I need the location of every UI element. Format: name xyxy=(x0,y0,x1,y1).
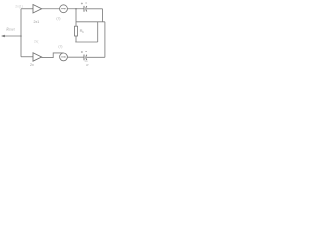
wire circle2 to capacitor C2 xyxy=(67,56,83,58)
wire U1 output to circle xyxy=(42,8,60,10)
svg-text:(r): (r) xyxy=(58,44,62,48)
capacitor C1 curved plate xyxy=(86,6,87,11)
source circle2 xyxy=(60,53,68,61)
wire input vertical bus xyxy=(20,9,22,57)
capacitor C1 straight plate xyxy=(83,6,85,12)
wire capacitor C1 to right rail xyxy=(87,8,103,10)
capacitor C1 polarity minus xyxy=(85,2,87,4)
wire input arrow line xyxy=(2,35,21,37)
capacitor C2 polarity minus xyxy=(85,51,87,53)
wire chain top segment xyxy=(75,9,77,26)
wire circle1 to capacitor C1 xyxy=(68,8,84,10)
source circle1 xyxy=(60,5,68,13)
op-amp buffer U2 xyxy=(33,53,42,61)
wire to buffer U1 input xyxy=(21,8,33,10)
wire rail1 horizontal xyxy=(76,21,105,23)
svg-text:2x: 2x xyxy=(30,63,34,67)
circle2 inner arrow xyxy=(61,56,65,58)
circle1 inner arrow xyxy=(61,8,65,10)
svg-text:w: w xyxy=(86,63,89,67)
wire rail2 horizontal xyxy=(75,41,97,43)
wire to buffer U2 input xyxy=(21,56,33,58)
junction node at arrow xyxy=(20,35,22,37)
resistor R box xyxy=(75,26,78,36)
wire capacitor C2 to right rail xyxy=(87,56,105,58)
svg-text:b: b xyxy=(82,30,84,34)
wire U2 output with jog up to circle2 top xyxy=(42,53,64,58)
capacitor C2 polarity plus xyxy=(81,51,83,53)
wire right vertical rail B xyxy=(104,22,106,58)
capacitor C2 straight plate xyxy=(83,55,85,61)
capacitor C1 polarity plus xyxy=(81,3,83,5)
wire middle vertical x97.5 xyxy=(97,22,99,42)
svg-text:(r): (r) xyxy=(56,17,60,21)
wire chain bottom segment xyxy=(75,36,77,42)
svg-text:2x(1): 2x(1) xyxy=(15,5,23,9)
op-amp buffer U1 xyxy=(33,5,42,13)
svg-text:2x(: 2x( xyxy=(34,40,39,44)
junction node on top wire xyxy=(75,8,77,10)
input arrowhead xyxy=(1,35,5,38)
svg-text:Reset: Reset xyxy=(5,27,15,31)
capacitor C2 curved plate xyxy=(86,55,87,60)
wire right vertical stub A xyxy=(102,9,104,22)
svg-text:2x1: 2x1 xyxy=(34,20,40,24)
